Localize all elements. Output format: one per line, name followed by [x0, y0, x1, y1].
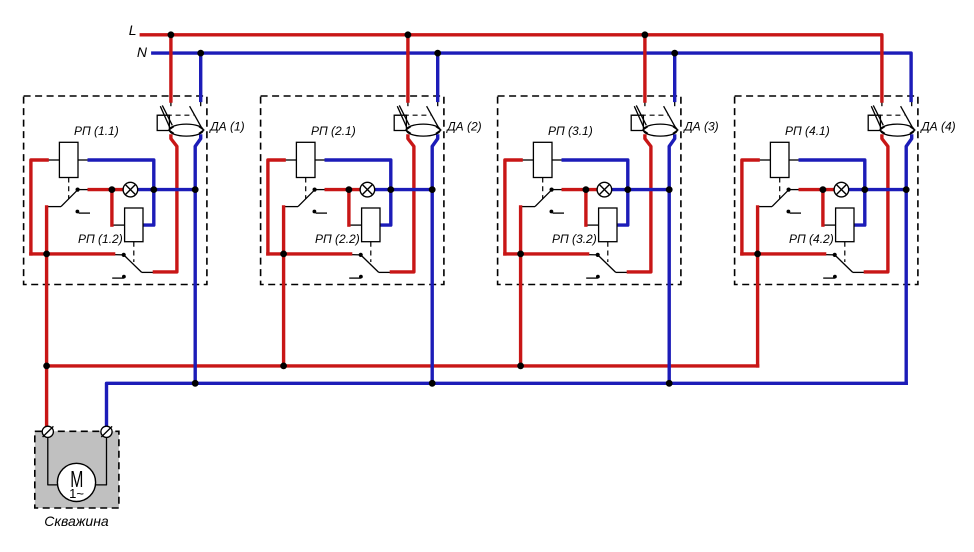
relay coil lead РП (1.2)	[112, 224, 125, 226]
wire: red riser from switch РП (2.1) to bottom red bus	[282, 207, 285, 366]
switch contact of РП (1.2)	[113, 254, 123, 256]
wire: blue from sensor ДА (3) down to bottom blue bus	[669, 136, 675, 383]
wire: N bus (blue) with bend down to sensor ДА (4)	[153, 53, 911, 100]
pump terminal screw left	[42, 426, 53, 437]
wire: red output of switch РП (4.1) to lamp	[800, 188, 834, 191]
dashed enclosure box of channel 1	[24, 96, 207, 285]
mechanical link of relay РП (2.1)	[305, 178, 307, 200]
wire: red feed to coil РП (1.1)	[31, 160, 47, 254]
mechanical link of relay РП (3.1)	[542, 178, 544, 200]
spare contact of РП (1.1)	[76, 210, 80, 214]
switch contact of РП (2.2)	[350, 254, 360, 256]
wire: red from sensor ДА (1) down to switch РП (1.2)	[154, 136, 177, 272]
wire: blue drop from N bus to ДА (3)	[673, 53, 676, 100]
mechanical link of sensor ДА (4)	[869, 114, 905, 116]
dashed enclosure box of channel 3	[498, 96, 681, 285]
svg-text:РП (4.1): РП (4.1)	[785, 124, 830, 138]
junction: red node rail, block 2	[280, 251, 287, 258]
wire: red branch to coil РП (1.2)	[110, 190, 113, 226]
wire: red drop from L bus to ДА (1)	[169, 35, 172, 101]
relay coil leads РП (1.1)	[47, 159, 60, 161]
junction on N bus, block 2	[434, 50, 441, 57]
junction on bottom red bus, block 2	[280, 363, 287, 370]
svg-text:РП (3.1): РП (3.1)	[548, 124, 593, 138]
wire: blue drop from N bus to ДА (2)	[436, 53, 439, 100]
junction on bottom blue bus, block 2	[429, 380, 436, 387]
spare contact of РП (4.2)	[833, 275, 837, 279]
indicator lamp of block 4	[834, 182, 849, 197]
spare contact of РП (3.2)	[596, 275, 600, 279]
junction: lamp feed node, block 4	[820, 186, 827, 193]
mechanical link of sensor ДА (3)	[632, 114, 668, 116]
dashed enclosure box of channel 2	[261, 96, 444, 285]
junction: neutral node at ДА (3) drop	[666, 186, 673, 193]
junction: red node rail, block 4	[754, 251, 761, 258]
wire: red node rail of block 4	[742, 252, 825, 255]
wire: blue from coil РП (1.1) to coil РП (1.2)	[89, 160, 154, 225]
wire: bottom blue bus to pump	[107, 383, 907, 426]
junction on bottom red bus, block 1	[43, 363, 50, 370]
svg-text:ДА (4): ДА (4)	[919, 120, 955, 134]
sensor ДА (3) body rectangle	[631, 115, 643, 130]
junction: neutral node at ДА (2) drop	[429, 186, 436, 193]
wire: red feed to coil РП (3.1)	[505, 160, 521, 254]
wire: blue neutral from lamp of block 2	[375, 188, 433, 191]
svg-text:Скважина: Скважина	[44, 513, 109, 529]
wire: red drop from L bus to ДА (3)	[643, 35, 646, 101]
junction: lamp feed node, block 1	[109, 186, 116, 193]
junction on N bus, block 1	[197, 50, 204, 57]
wire: blue drop from N bus to ДА (1)	[199, 53, 202, 100]
motor lead wires inside pump box	[48, 437, 58, 485]
sensor ДА (4) float body	[880, 124, 915, 136]
spare contact of РП (2.2)	[359, 275, 363, 279]
float sensor ДА (1) contacts	[170, 101, 172, 107]
switch contact of РП (3.2)	[587, 254, 597, 256]
svg-text:L: L	[129, 22, 137, 38]
wire: red branch to coil РП (3.2)	[584, 190, 587, 226]
wire: red output of switch РП (3.1) to lamp	[563, 188, 597, 191]
svg-text:N: N	[137, 44, 148, 60]
junction: neutral node at coil riser, block 4	[861, 186, 868, 193]
pump terminal screw right	[101, 426, 112, 437]
svg-text:1~: 1~	[69, 486, 84, 501]
wire: red from sensor ДА (4) down to switch РП (4.2)	[865, 136, 888, 272]
motor M1 single-phase	[57, 463, 95, 501]
wire: blue neutral from lamp of block 1	[138, 188, 196, 191]
mechanical link of relay РП (1.2)	[133, 242, 135, 262]
svg-text:ДА (3): ДА (3)	[682, 120, 718, 134]
wire: red riser from switch РП (3.1) to bottom red bus	[519, 207, 522, 366]
svg-text:РП (2.1): РП (2.1)	[311, 124, 356, 138]
wire: red drop from L bus to ДА (2)	[406, 35, 409, 101]
float sensor ДА (4) contacts	[881, 101, 883, 107]
switch contact of РП (1.1)	[47, 206, 61, 208]
relay coil РП (2.2)	[362, 208, 380, 242]
switch contact of РП (4.2)	[824, 254, 834, 256]
switch contact of РП (3.1)	[521, 206, 535, 208]
wire: red output of switch РП (2.1) to lamp	[326, 188, 360, 191]
wire: red node rail of block 1	[31, 252, 114, 255]
svg-text:РП (2.2): РП (2.2)	[315, 232, 360, 246]
wire: blue from sensor ДА (2) down to bottom blue bus	[432, 136, 438, 383]
svg-text:РП (1.2): РП (1.2)	[78, 232, 123, 246]
dashed enclosure box of channel 4	[735, 96, 918, 285]
relay coil РП (3.2)	[599, 208, 617, 242]
wire: red riser from switch РП (4.1) to bottom red bus	[756, 207, 759, 366]
relay coil leads РП (3.1)	[521, 159, 534, 161]
mechanical link of relay РП (4.2)	[844, 242, 846, 262]
relay coil leads РП (4.1)	[758, 159, 771, 161]
sensor ДА (1) float body	[169, 124, 204, 136]
float sensor ДА (2) contacts	[407, 101, 409, 107]
junction on L bus, block 1	[168, 31, 175, 38]
wire: blue from sensor ДА (1) down to bottom blue bus	[195, 136, 201, 383]
junction on L bus, block 3	[642, 31, 649, 38]
wire: red node rail of block 3	[505, 252, 588, 255]
junction: neutral node at ДА (1) drop	[192, 186, 199, 193]
mechanical link of relay РП (1.1)	[68, 178, 70, 200]
wire: blue neutral from lamp of block 3	[612, 188, 670, 191]
mechanical link of relay РП (3.2)	[607, 242, 609, 262]
spare contact of РП (3.1)	[550, 210, 554, 214]
relay coil РП (4.2)	[836, 208, 854, 242]
mechanical link of sensor ДА (1)	[158, 114, 194, 116]
wire: blue from coil РП (2.1) to coil РП (2.2)	[326, 160, 391, 225]
mechanical link of relay РП (2.2)	[370, 242, 372, 262]
junction on bottom blue bus, block 3	[666, 380, 673, 387]
spare contact of РП (4.1)	[787, 210, 791, 214]
svg-text:РП (3.2): РП (3.2)	[552, 232, 597, 246]
wire: red output of switch РП (1.1) to lamp	[89, 188, 123, 191]
switch contact of РП (2.1)	[284, 206, 298, 208]
wire: L bus (red) with bend down to sensor ДА (4)	[141, 35, 882, 101]
relay coil lead РП (4.2)	[823, 224, 836, 226]
wire: blue from coil РП (4.1) to coil РП (4.2)	[800, 160, 865, 225]
wire: blue from sensor ДА (4) down to bottom blue bus	[906, 136, 912, 383]
float sensor ДА (3) contacts	[644, 101, 646, 107]
junction: red node rail, block 1	[43, 251, 50, 258]
sensor ДА (4) body rectangle	[868, 115, 880, 130]
wire: red feed to coil РП (2.1)	[268, 160, 284, 254]
relay coil РП (4.1)	[770, 142, 789, 177]
wire: blue neutral from lamp of block 4	[849, 188, 907, 191]
relay coil РП (1.2)	[125, 208, 143, 242]
wire: red branch to coil РП (2.2)	[347, 190, 350, 226]
switch contact of РП (4.1)	[758, 206, 772, 208]
wire: red from sensor ДА (2) down to switch РП (2.2)	[391, 136, 414, 272]
relay coil РП (1.1)	[59, 142, 78, 177]
junction: neutral node at coil riser, block 3	[624, 186, 631, 193]
spare contact of РП (2.1)	[313, 210, 317, 214]
dashed enclosure box of well pump (Скважина), gray filled	[35, 431, 119, 508]
relay coil lead РП (2.2)	[349, 224, 362, 226]
mechanical link of relay РП (4.1)	[779, 178, 781, 200]
svg-text:ДА (2): ДА (2)	[445, 120, 481, 134]
indicator lamp of block 3	[597, 182, 612, 197]
junction on bottom red bus, block 3	[517, 363, 524, 370]
sensor ДА (2) float body	[406, 124, 441, 136]
wire: red branch to coil РП (4.2)	[821, 190, 824, 226]
spare contact of РП (1.2)	[122, 275, 126, 279]
wire: blue from coil РП (3.1) to coil РП (3.2)	[563, 160, 628, 225]
wire: red riser from switch РП (1.1) to bottom red bus	[45, 207, 48, 426]
mechanical link of sensor ДА (2)	[395, 114, 431, 116]
indicator lamp of block 2	[360, 182, 375, 197]
wire: red feed to coil РП (4.1)	[742, 160, 758, 254]
junction: neutral node at coil riser, block 1	[150, 186, 157, 193]
sensor ДА (3) float body	[643, 124, 678, 136]
svg-text:РП (4.2): РП (4.2)	[789, 232, 834, 246]
junction: red node rail, block 3	[517, 251, 524, 258]
wire: red node rail of block 2	[268, 252, 351, 255]
wire: bottom red bus to pump	[47, 364, 758, 367]
relay coil lead РП (3.2)	[586, 224, 599, 226]
junction: lamp feed node, block 3	[583, 186, 590, 193]
junction: neutral node at ДА (4) drop	[903, 186, 910, 193]
relay coil РП (2.1)	[296, 142, 315, 177]
sensor ДА (1) body rectangle	[157, 115, 169, 130]
indicator lamp of block 1	[123, 182, 138, 197]
relay coil leads РП (2.1)	[284, 159, 297, 161]
junction on L bus, block 2	[405, 31, 412, 38]
junction on N bus, block 3	[671, 50, 678, 57]
relay coil РП (3.1)	[533, 142, 552, 177]
junction: lamp feed node, block 2	[346, 186, 353, 193]
junction on bottom blue bus, block 1	[192, 380, 199, 387]
svg-text:РП (1.1): РП (1.1)	[74, 124, 119, 138]
junction: neutral node at coil riser, block 2	[387, 186, 394, 193]
svg-text:ДА (1): ДА (1)	[208, 120, 244, 134]
sensor ДА (2) body rectangle	[394, 115, 406, 130]
wire: red from sensor ДА (3) down to switch РП (3.2)	[628, 136, 651, 272]
